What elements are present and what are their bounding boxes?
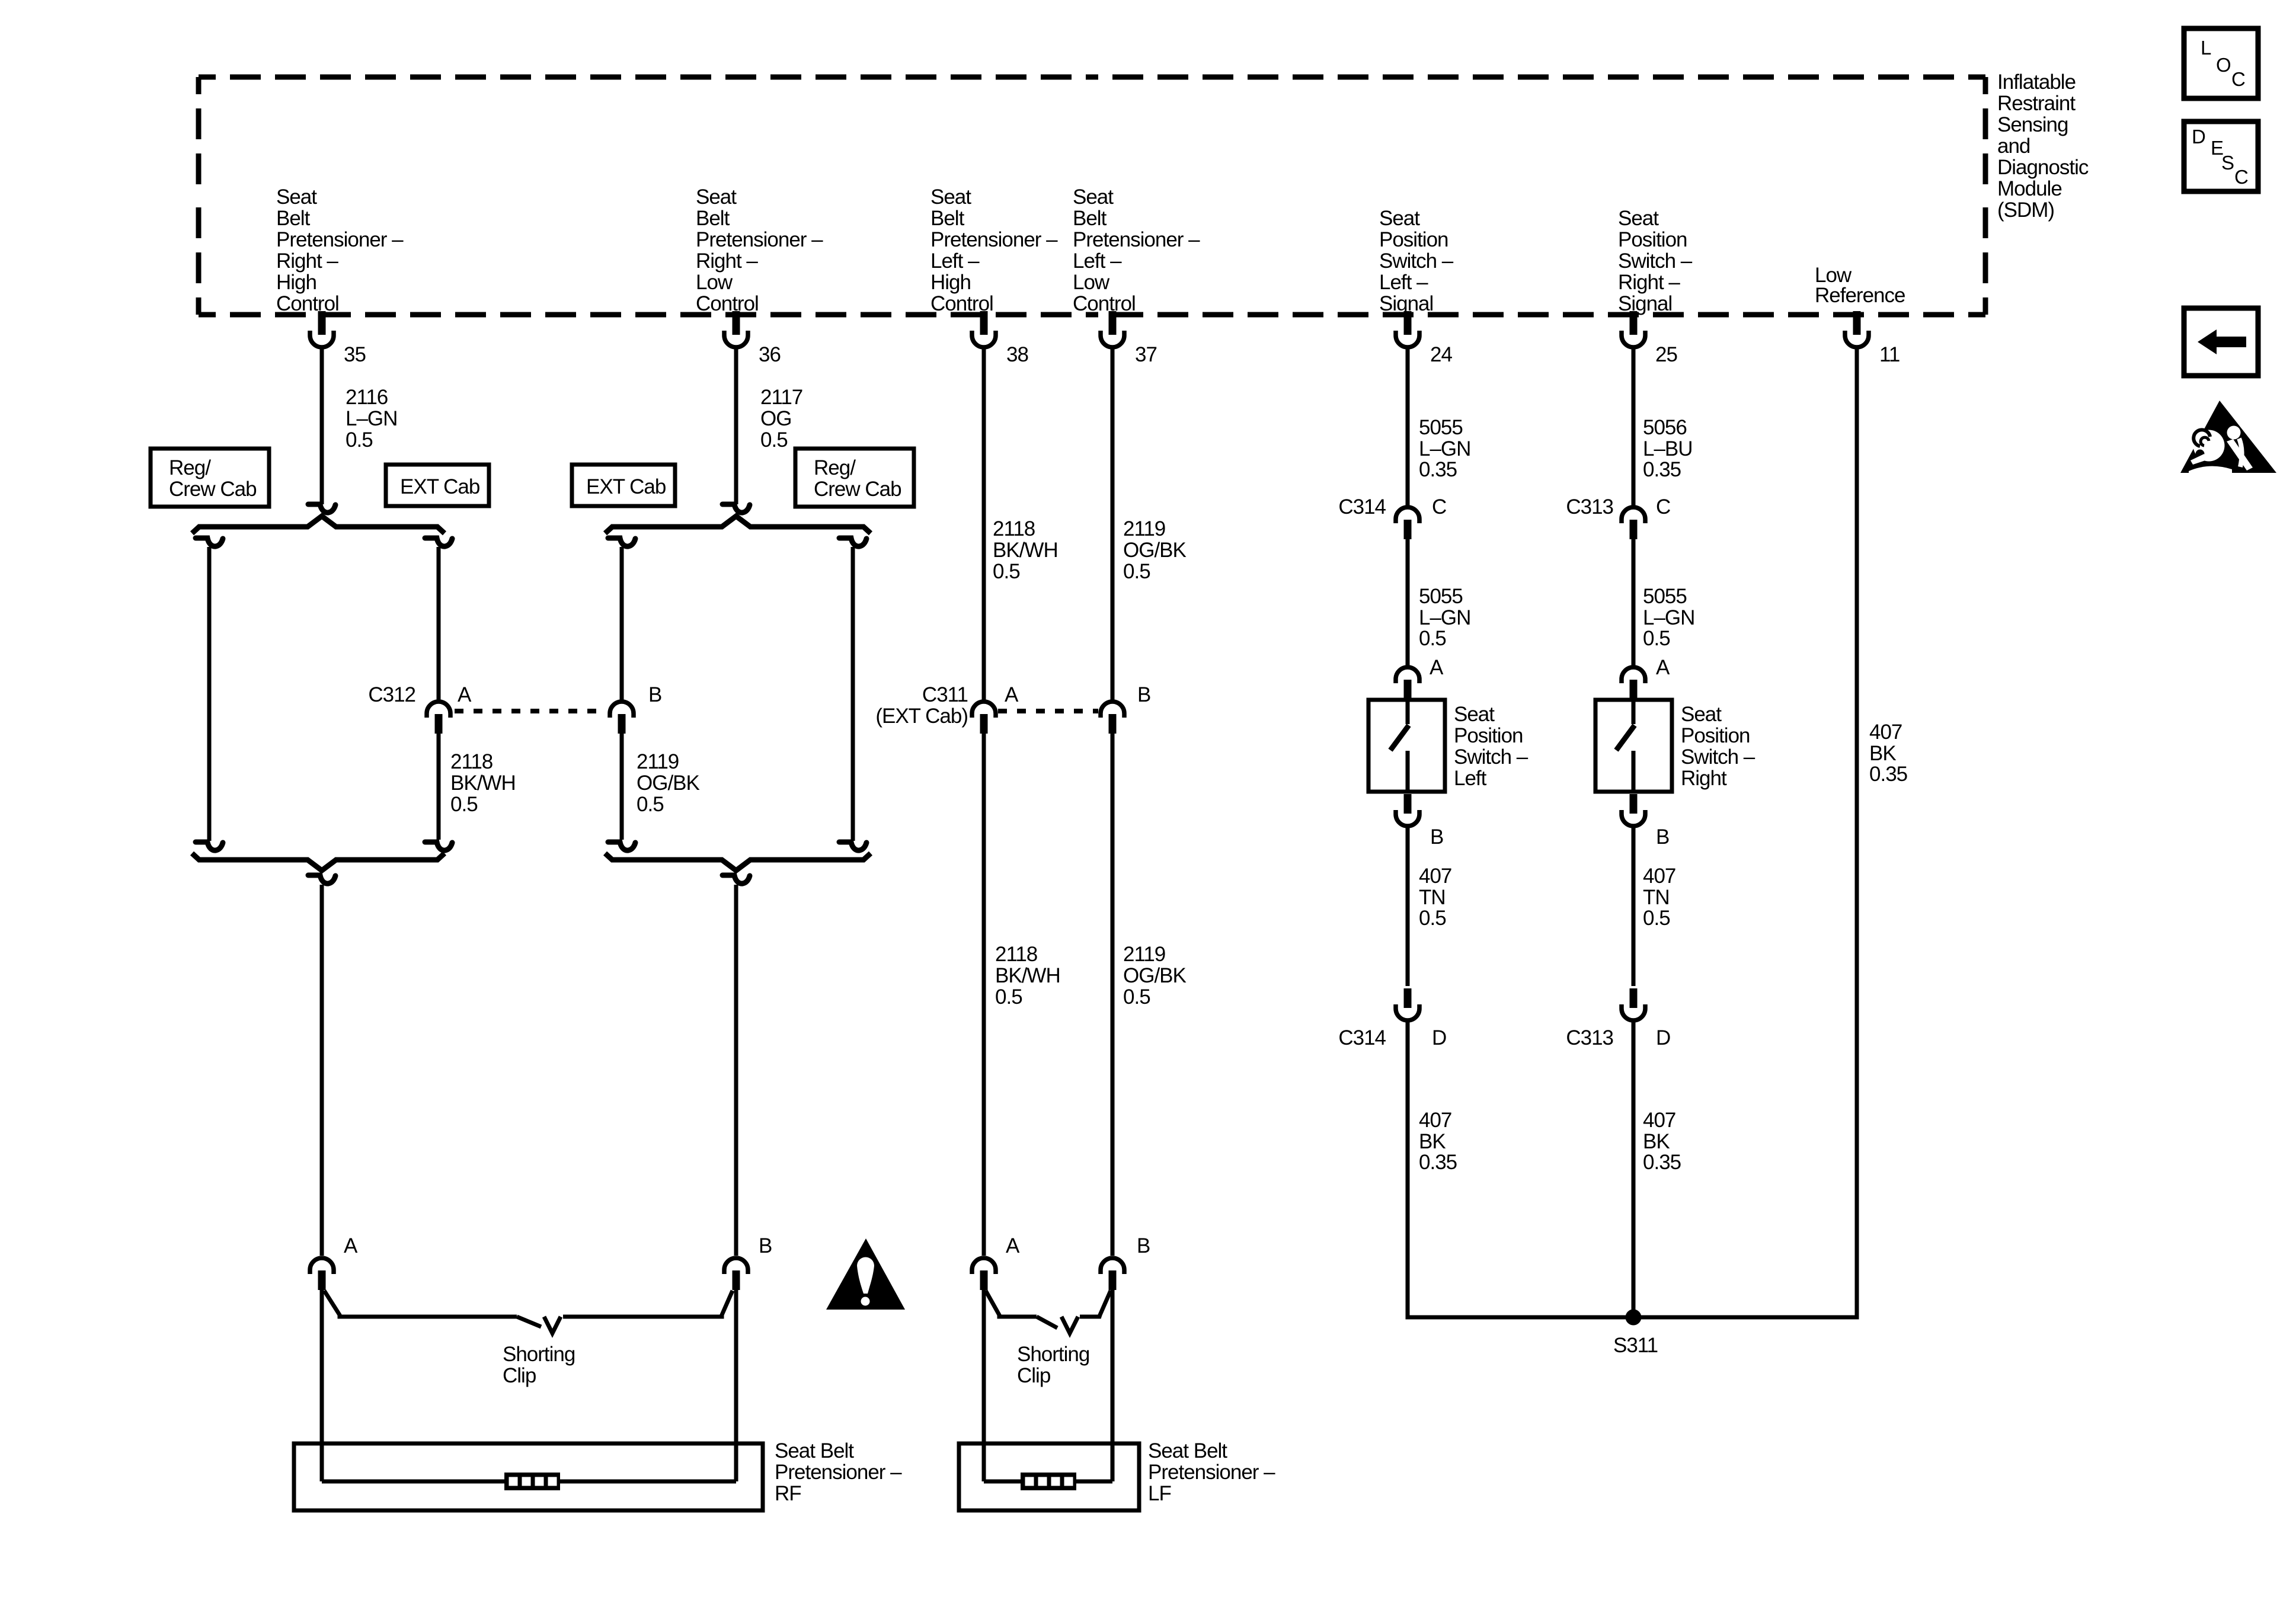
svg-text:L–GN: L–GN <box>346 407 397 430</box>
svg-text:EXT Cab: EXT Cab <box>586 475 666 498</box>
svg-text:Shorting: Shorting <box>1017 1343 1089 1366</box>
wire 5056 from pin 25 <box>1632 348 1636 506</box>
svg-text:Seat: Seat <box>1454 703 1495 726</box>
svg-text:2119: 2119 <box>637 750 679 773</box>
svg-text:OG/BK: OG/BK <box>637 772 700 795</box>
wire: hook at end of wire 35 <box>308 504 335 513</box>
svg-text:35: 35 <box>344 343 366 366</box>
node: wire 5055 L-GN 0.35 label <box>1419 416 1470 481</box>
svg-text:S: S <box>2221 152 2234 174</box>
wire: hook below lower brace group 2 <box>722 875 750 884</box>
svg-text:2118: 2118 <box>993 517 1035 540</box>
svg-text:Restraint: Restraint <box>1997 92 2076 115</box>
node: wire 2119 OG/BK 0.5 label upper <box>1123 517 1187 583</box>
wire 407 BK from C313 D down to splice <box>1632 1022 1636 1317</box>
svg-text:5055: 5055 <box>1643 585 1687 608</box>
svg-text:D: D <box>1656 1026 1670 1049</box>
svg-text:Low: Low <box>696 271 733 294</box>
svg-text:C313: C313 <box>1566 495 1613 518</box>
node: wire 2118 BK/WH 0.5 label lower <box>995 943 1060 1009</box>
node: back arrow icon box <box>2184 308 2258 376</box>
pin 25 connector at SDM <box>1622 311 1645 347</box>
pin 24 connector at SDM <box>1396 311 1419 347</box>
svg-text:S311: S311 <box>1613 1334 1658 1357</box>
svg-text:11: 11 <box>1879 343 1900 366</box>
connector C314 pin C <box>1396 507 1419 539</box>
svg-text:Belt: Belt <box>930 207 965 230</box>
svg-text:2118: 2118 <box>995 943 1037 966</box>
svg-text:Control: Control <box>696 292 759 315</box>
node: SDM pin 11 label Low Reference <box>1815 264 1905 307</box>
svg-text:C: C <box>1432 495 1446 518</box>
svg-text:Right –: Right – <box>696 249 758 273</box>
wire: merged wire group 2 down to pretensioner RF pin B <box>734 885 738 1256</box>
svg-text:0.5: 0.5 <box>450 793 478 816</box>
connector C312 pin A <box>427 702 450 734</box>
svg-text:Switch –: Switch – <box>1618 249 1693 273</box>
svg-text:Belt: Belt <box>276 207 311 230</box>
node: wire 407 BK 0.35 label left <box>1419 1109 1457 1174</box>
svg-text:EXT Cab: EXT Cab <box>400 475 479 498</box>
svg-text:B: B <box>1137 1234 1150 1257</box>
svg-text:C313: C313 <box>1566 1026 1613 1049</box>
svg-text:Left: Left <box>1454 767 1487 790</box>
pin 11 connector at SDM <box>1845 311 1869 347</box>
node: warning triangle with exclamation <box>826 1238 905 1310</box>
svg-text:Low: Low <box>1073 271 1110 294</box>
svg-text:38: 38 <box>1006 343 1028 366</box>
node: RF shorting clip arrow symbol <box>544 1317 561 1333</box>
svg-text:Signal: Signal <box>1618 292 1672 315</box>
node: wire 2116 L-GN 0.5 label <box>346 386 397 452</box>
svg-text:Seat: Seat <box>930 185 971 209</box>
wire 2117 from pin 36 <box>734 348 738 504</box>
svg-text:2119: 2119 <box>1123 517 1165 540</box>
wire: RF shorting clip open blade <box>517 1317 541 1327</box>
svg-text:0.35: 0.35 <box>1419 1151 1457 1174</box>
connector pin B of pretensioner RF <box>724 1258 748 1290</box>
wire: lower option brace group 1 <box>192 853 445 870</box>
svg-text:D: D <box>1432 1026 1446 1049</box>
svg-text:Pretensioner –: Pretensioner – <box>1148 1461 1275 1484</box>
connector C314 pin D <box>1396 988 1419 1020</box>
wire 2116 from pin 35 <box>320 348 324 504</box>
node: EXT Cab option box 1 <box>386 465 489 506</box>
svg-text:A: A <box>344 1234 358 1257</box>
svg-text:Seat Belt: Seat Belt <box>775 1439 854 1462</box>
svg-text:C312: C312 <box>368 683 415 706</box>
svg-text:Position: Position <box>1618 228 1687 251</box>
node: SDM pin 35 label Seat Belt Pretensioner Right High Control <box>276 185 404 315</box>
svg-text:B: B <box>1430 825 1443 849</box>
svg-text:Sensing: Sensing <box>1997 113 2068 136</box>
svg-text:L: L <box>2201 37 2211 59</box>
node: wire 2118 BK/WH 0.5 label below C312 <box>450 750 516 816</box>
node: Shorting Clip label LF <box>1017 1343 1089 1387</box>
wire: right branch group 2 <box>851 547 855 841</box>
wire: SDM module dashed box right edge <box>1983 77 1988 315</box>
svg-text:Seat: Seat <box>1073 185 1114 209</box>
svg-text:Control: Control <box>1073 292 1136 315</box>
connector pin B of pretensioner LF <box>1101 1258 1124 1290</box>
wire 2119 from pin 37 upper part <box>1111 348 1115 702</box>
node: Seat Position Switch Left label <box>1454 703 1528 790</box>
wire: merged wire group 1 down to pretensioner RF pin A <box>320 885 324 1256</box>
wire: SDM module dashed box top edge <box>199 75 1985 80</box>
connector C311 pin B <box>1101 702 1124 734</box>
svg-text:Seat: Seat <box>1618 207 1659 230</box>
svg-text:Seat: Seat <box>696 185 737 209</box>
connector pin A of left seat position switch <box>1396 667 1419 699</box>
svg-text:L–GN: L–GN <box>1643 606 1694 629</box>
component: Seat Belt Pretensioner LF box <box>959 1443 1139 1510</box>
svg-text:0.35: 0.35 <box>1643 458 1681 481</box>
node: Seat Position Switch Right label <box>1681 703 1755 790</box>
svg-text:0.5: 0.5 <box>760 428 788 452</box>
connector C312 pin B <box>610 702 634 734</box>
connector pin A of pretensioner RF <box>310 1258 334 1290</box>
svg-text:Seat: Seat <box>276 185 317 209</box>
wire: hook bottom of right branch group 2 <box>839 842 866 850</box>
svg-text:Left –: Left – <box>1073 249 1122 273</box>
svg-text:Pretensioner –: Pretensioner – <box>696 228 823 251</box>
node: SDM pin 25 label Seat Position Switch Right Signal <box>1618 207 1693 315</box>
svg-text:Switch –: Switch – <box>1454 745 1528 769</box>
node: SDM pin 24 label Seat Position Switch Left Signal <box>1379 207 1454 315</box>
svg-text:37: 37 <box>1135 343 1157 366</box>
wire 5055 from pin 24 <box>1406 348 1410 506</box>
svg-text:(SDM): (SDM) <box>1997 199 2054 222</box>
connector pin B of left seat position switch <box>1396 794 1419 826</box>
wire: RF shorting clip left diagonal <box>324 1291 517 1317</box>
svg-text:B: B <box>648 683 661 706</box>
svg-text:and: and <box>1997 135 2030 158</box>
node: wire 407 TN 0.5 label right <box>1643 865 1675 930</box>
svg-text:Crew Cab: Crew Cab <box>814 478 901 501</box>
svg-text:2118: 2118 <box>450 750 493 773</box>
svg-text:L–BU: L–BU <box>1643 437 1693 460</box>
node: DESC reference icon box <box>2184 121 2258 191</box>
svg-text:0.35: 0.35 <box>1869 763 1907 786</box>
svg-text:RF: RF <box>775 1482 801 1505</box>
wire: hook bottom of left branch group 1 <box>196 842 223 850</box>
switch SW2: Seat Position Switch Right box <box>1595 700 1672 792</box>
svg-text:407: 407 <box>1643 865 1675 888</box>
node: wire 407 BK 0.35 label right <box>1643 1109 1681 1174</box>
node: airbag caution triangle icon <box>2180 401 2276 473</box>
wire 407 BK from C314 D down and across to wire 11 <box>1408 348 1857 1317</box>
svg-text:A: A <box>458 683 472 706</box>
pin 36 connector at SDM <box>724 311 748 347</box>
node: wire 2118 BK/WH 0.5 label upper <box>993 517 1058 583</box>
svg-text:407: 407 <box>1869 721 1902 744</box>
svg-text:Position: Position <box>1454 724 1523 747</box>
connector C313 pin C <box>1622 507 1645 539</box>
node: wire 5056 L-BU 0.35 label <box>1643 416 1693 481</box>
svg-text:Shorting: Shorting <box>503 1343 575 1366</box>
node: splice S311 junction dot <box>1626 1310 1642 1326</box>
pin 35 connector at SDM <box>310 311 334 347</box>
connector pin B of right seat position switch <box>1622 794 1645 826</box>
svg-text:Seat: Seat <box>1379 207 1420 230</box>
svg-text:0.35: 0.35 <box>1643 1151 1681 1174</box>
svg-text:High: High <box>930 271 971 294</box>
svg-text:0.5: 0.5 <box>1123 985 1150 1009</box>
svg-text:0.35: 0.35 <box>1419 458 1457 481</box>
svg-text:2117: 2117 <box>760 386 802 409</box>
node: wire 5055 L-GN 0.5 label left <box>1419 585 1470 650</box>
svg-text:Left –: Left – <box>1379 271 1428 294</box>
node: wire 5055 L-GN 0.5 label right <box>1643 585 1694 650</box>
svg-text:D: D <box>2192 126 2205 148</box>
svg-text:OG: OG <box>760 407 791 430</box>
svg-text:C: C <box>2234 166 2248 188</box>
svg-text:Switch –: Switch – <box>1681 745 1755 769</box>
svg-text:25: 25 <box>1655 343 1677 366</box>
svg-text:Pretensioner –: Pretensioner – <box>1073 228 1200 251</box>
node: Seat Belt Pretensioner RF label <box>775 1439 902 1505</box>
svg-text:Pretensioner –: Pretensioner – <box>276 228 404 251</box>
wire 2119 lower part to pretensioner LF pin B <box>1111 733 1115 1256</box>
svg-text:5055: 5055 <box>1419 416 1463 439</box>
wire: hook top of left branch group 2 <box>608 538 635 546</box>
node: wire 2117 OG 0.5 label <box>760 386 802 452</box>
svg-text:Seat Belt: Seat Belt <box>1148 1439 1227 1462</box>
wire: LF squib element line <box>984 1480 1022 1484</box>
wire: RF squib element line <box>322 1480 506 1484</box>
wire: RF pin A lead into box <box>320 1287 324 1481</box>
svg-text:LF: LF <box>1148 1482 1171 1505</box>
svg-text:C311: C311 <box>922 683 968 706</box>
svg-text:0.5: 0.5 <box>993 560 1020 583</box>
svg-text:0.5: 0.5 <box>346 428 373 452</box>
connector C311 pin A <box>972 702 996 734</box>
svg-text:Pretensioner –: Pretensioner – <box>930 228 1058 251</box>
svg-text:Pretensioner –: Pretensioner – <box>775 1461 902 1484</box>
svg-text:Position: Position <box>1379 228 1448 251</box>
wire: upper option brace group 1 <box>192 516 445 533</box>
wire: left branch group 2 upper part <box>620 547 624 701</box>
svg-text:Switch –: Switch – <box>1379 249 1454 273</box>
svg-text:High: High <box>276 271 316 294</box>
svg-text:A: A <box>1005 683 1019 706</box>
wire 2118 from pin 38 upper part <box>982 348 986 702</box>
svg-text:Left –: Left – <box>930 249 980 273</box>
wire: right branch group 1 upper part <box>437 547 441 701</box>
wire: hook top of right branch group 1 <box>425 538 452 546</box>
svg-text:BK/WH: BK/WH <box>450 772 516 795</box>
wire: LF shorting clip left diagonal <box>986 1291 1037 1317</box>
svg-text:TN: TN <box>1419 886 1446 909</box>
svg-text:C: C <box>1656 495 1670 518</box>
connector pin A of right seat position switch <box>1622 667 1645 699</box>
svg-text:B: B <box>759 1234 772 1257</box>
svg-text:0.5: 0.5 <box>1643 907 1670 930</box>
wire: LF shorting clip right segment <box>1080 1291 1111 1317</box>
pin 37 connector at SDM <box>1101 311 1124 347</box>
svg-text:5056: 5056 <box>1643 416 1687 439</box>
svg-text:Crew Cab: Crew Cab <box>169 478 257 501</box>
wire: RF pin B lead into box <box>734 1287 738 1481</box>
node: SDM title label <box>1997 71 2089 222</box>
component: Seat Belt Pretensioner RF box <box>294 1443 763 1510</box>
wire: hook top of right branch group 2 <box>839 538 866 546</box>
wire: lower option brace group 2 <box>605 853 871 870</box>
svg-text:Right –: Right – <box>276 249 338 273</box>
svg-text:A: A <box>1430 656 1444 679</box>
svg-text:C: C <box>2231 68 2245 90</box>
svg-text:407: 407 <box>1419 1109 1451 1132</box>
node: SDM pin 38 label Seat Belt Pretensioner Left High Control <box>930 185 1058 315</box>
wire: dashed mating link C312 A to B <box>455 709 606 713</box>
svg-text:Right –: Right – <box>1618 271 1680 294</box>
svg-text:24: 24 <box>1430 343 1452 366</box>
svg-text:O: O <box>2216 54 2231 76</box>
wire: LF shorting clip open blade <box>1037 1317 1057 1328</box>
svg-text:Module: Module <box>1997 177 2062 200</box>
svg-text:0.5: 0.5 <box>637 793 664 816</box>
node: SDM pin 36 label Seat Belt Pretensioner Right Low Control <box>696 185 823 315</box>
wire: upper option brace group 2 <box>605 516 871 533</box>
svg-text:0.5: 0.5 <box>1643 627 1670 650</box>
svg-text:Reg/: Reg/ <box>169 456 211 479</box>
node: wire 407 TN 0.5 label left <box>1419 865 1451 930</box>
wire 2118 lower part to pretensioner LF pin A <box>982 733 986 1256</box>
svg-text:Reference: Reference <box>1815 284 1905 307</box>
wire 407 TN 0.5 right segment <box>1632 827 1636 986</box>
svg-text:Belt: Belt <box>1073 207 1107 230</box>
wire: hook top of left branch group 1 <box>196 538 223 546</box>
wire: hook bottom of left branch group 2 <box>608 842 635 850</box>
wire: hook at end of wire 36 <box>722 504 750 513</box>
component: LF squib element <box>1021 1473 1076 1490</box>
svg-text:TN: TN <box>1643 886 1670 909</box>
wire: LF pin B lead into box <box>1111 1287 1115 1481</box>
svg-text:2119: 2119 <box>1123 943 1165 966</box>
node: wire 2119 OG/BK 0.5 label below C312 B <box>637 750 700 816</box>
svg-text:Seat: Seat <box>1681 703 1722 726</box>
svg-text:A: A <box>1006 1234 1020 1257</box>
wire: hook bottom of right branch group 1 <box>425 842 452 850</box>
svg-text:407: 407 <box>1643 1109 1675 1132</box>
wire: right branch group 1 lower part <box>437 733 441 840</box>
switch SW1: Seat Position Switch Left box <box>1368 700 1445 792</box>
wire 5055 L-GN 0.5 left segment <box>1406 539 1410 666</box>
svg-text:B: B <box>1137 683 1150 706</box>
wire: RF shorting clip right segment <box>563 1291 733 1317</box>
connector C313 pin D <box>1622 988 1645 1020</box>
svg-text:Clip: Clip <box>503 1364 536 1387</box>
svg-text:407: 407 <box>1419 865 1451 888</box>
svg-text:36: 36 <box>759 343 781 366</box>
svg-text:Belt: Belt <box>696 207 730 230</box>
node: wire 407 BK 0.35 label for pin 11 wire <box>1869 721 1907 786</box>
wire: SDM module dashed box bottom edge <box>199 312 1985 318</box>
svg-text:L–GN: L–GN <box>1419 606 1470 629</box>
svg-text:0.5: 0.5 <box>1419 627 1446 650</box>
svg-text:OG/BK: OG/BK <box>1123 964 1187 987</box>
svg-text:A: A <box>1656 656 1670 679</box>
svg-text:C314: C314 <box>1338 495 1386 518</box>
svg-text:Control: Control <box>276 292 339 315</box>
svg-text:Right: Right <box>1681 767 1727 790</box>
wire 407 TN 0.5 left segment <box>1406 827 1410 986</box>
wire: left branch group 2 lower part <box>620 733 624 840</box>
component: RF squib element <box>504 1473 560 1490</box>
svg-text:Position: Position <box>1681 724 1750 747</box>
svg-text:L–GN: L–GN <box>1419 437 1470 460</box>
node: Reg/Crew Cab option box 2 <box>795 449 914 507</box>
svg-text:BK/WH: BK/WH <box>995 964 1060 987</box>
svg-text:(EXT Cab): (EXT Cab) <box>875 705 968 728</box>
svg-text:BK/WH: BK/WH <box>993 539 1058 562</box>
svg-text:Diagnostic: Diagnostic <box>1997 156 2089 179</box>
svg-text:0.5: 0.5 <box>1419 907 1446 930</box>
wire: LF pin A lead into box <box>982 1287 986 1481</box>
node: EXT Cab option box 2 <box>572 465 675 506</box>
svg-text:B: B <box>1656 825 1669 849</box>
svg-text:Reg/: Reg/ <box>814 456 856 479</box>
svg-text:Inflatable: Inflatable <box>1997 71 2076 94</box>
svg-text:5055: 5055 <box>1419 585 1463 608</box>
pin 38 connector at SDM <box>972 311 996 347</box>
svg-text:BK: BK <box>1419 1130 1446 1153</box>
svg-text:BK: BK <box>1869 742 1896 765</box>
svg-text:0.5: 0.5 <box>1123 560 1150 583</box>
wire: SDM module dashed box left edge <box>196 77 202 315</box>
wire: left branch group 1 <box>207 547 212 841</box>
connector pin A of pretensioner LF <box>972 1258 996 1290</box>
node: Reg/Crew Cab option box 1 <box>151 449 269 507</box>
svg-text:Clip: Clip <box>1017 1364 1050 1387</box>
wire: hook below lower brace group 1 <box>308 875 335 884</box>
svg-text:OG/BK: OG/BK <box>1123 539 1187 562</box>
wire: dashed mating link C311 A to B <box>998 709 1098 713</box>
node: LOC reference icon box <box>2184 28 2258 98</box>
node: LF shorting clip arrow symbol <box>1061 1317 1078 1333</box>
node: wire 2119 OG/BK 0.5 label lower <box>1123 943 1187 1009</box>
node: SDM pin 37 label Seat Belt Pretensioner Left Low Control <box>1073 185 1200 315</box>
wire 5055 L-GN 0.5 right segment <box>1632 539 1636 666</box>
svg-text:C314: C314 <box>1338 1026 1386 1049</box>
node: Shorting Clip label RF <box>503 1343 575 1387</box>
svg-text:2116: 2116 <box>346 386 388 409</box>
node: Seat Belt Pretensioner LF label <box>1148 1439 1275 1505</box>
svg-text:BK: BK <box>1643 1130 1670 1153</box>
svg-text:0.5: 0.5 <box>995 985 1022 1009</box>
